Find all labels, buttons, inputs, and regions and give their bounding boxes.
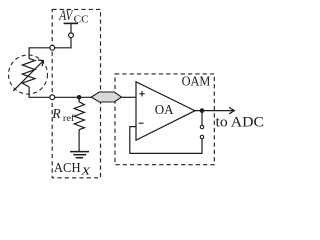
sensor arrow xyxy=(13,60,43,91)
svg-text:ref: ref xyxy=(63,113,75,124)
wire feedback to - input xyxy=(130,127,202,154)
svg-text:R: R xyxy=(51,106,61,121)
label Rref xyxy=(51,106,75,124)
junction dot at Rref xyxy=(77,95,82,100)
label OA xyxy=(155,103,175,118)
wire op-amp output to ADC xyxy=(195,110,234,112)
node port circle top (on ACH box edge) xyxy=(50,45,55,50)
op-amp OA triangle xyxy=(136,82,195,140)
wire AVCC bar to terminal circle xyxy=(70,23,72,33)
label OAM xyxy=(182,75,211,90)
label to ADC xyxy=(216,115,265,131)
sensor variable resistor zigzag xyxy=(22,59,35,87)
op-amp + input marker xyxy=(139,91,144,96)
wire AVCC circle down to top rail xyxy=(70,38,72,49)
bus arrow hexagon (analog channel) xyxy=(91,92,121,102)
node port circle bottom (on ACH box edge) xyxy=(50,95,55,100)
wire sensor bottom to rail xyxy=(28,87,30,97)
supply AVCC bar terminal xyxy=(64,22,78,24)
resistor Rref zigzag xyxy=(74,97,84,129)
wire top rail (AVCC to sensor top) xyxy=(29,48,71,59)
switch contact circle upper xyxy=(200,125,203,128)
svg-text:OAM: OAM xyxy=(182,75,211,90)
svg-text:ACH: ACH xyxy=(54,161,81,176)
terminal circle on AVCC line xyxy=(69,33,74,38)
label ACHX xyxy=(54,161,91,178)
ground xyxy=(70,152,89,158)
wire Rref to ground xyxy=(78,130,80,152)
svg-text:OA: OA xyxy=(155,103,175,118)
svg-text:X: X xyxy=(80,166,91,177)
wire bus arrow to op-amp + input xyxy=(122,96,136,98)
wire bottom rail (sensor to bus arrow) xyxy=(29,96,92,98)
ACH_X dashed module box xyxy=(52,9,100,177)
sensor dashed circle xyxy=(9,55,48,94)
svg-text:AV: AV xyxy=(58,8,74,24)
op-amp - input marker xyxy=(139,122,144,124)
supply AVCC label xyxy=(58,8,89,26)
svg-text:to ADC: to ADC xyxy=(216,115,265,131)
OAM dashed module box xyxy=(115,74,214,165)
output junction dot xyxy=(200,108,205,113)
arrowhead to ADC xyxy=(229,107,234,113)
wire switch to output junction xyxy=(201,111,203,126)
switch contact circle lower xyxy=(200,135,203,138)
